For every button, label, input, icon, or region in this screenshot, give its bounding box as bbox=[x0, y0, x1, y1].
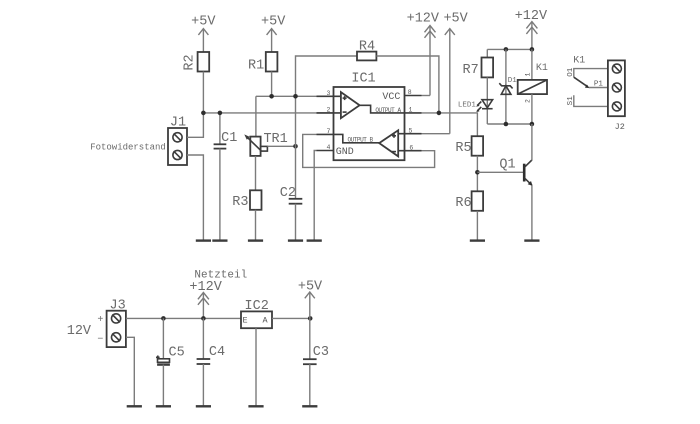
relay coil K1 bbox=[518, 63, 548, 103]
junction node (C4 / +12V riser) bbox=[201, 316, 206, 321]
pin stub 8 bbox=[405, 95, 422, 97]
resistor R2 bbox=[182, 52, 209, 72]
connector J2 bbox=[608, 60, 625, 132]
regulator IC2 bbox=[241, 299, 272, 328]
wire J3 minus to ground bbox=[126, 337, 134, 406]
ground (C2) bbox=[288, 239, 303, 241]
relay contact arm to P1 bbox=[574, 77, 608, 88]
svg-text:A: A bbox=[263, 315, 269, 325]
+5V supply symbol (above R2) bbox=[191, 14, 216, 52]
svg-text:Q1: Q1 bbox=[499, 158, 515, 173]
capacitor C1 bbox=[214, 113, 238, 240]
wire R1 bottom to pin3 net bbox=[271, 72, 273, 97]
svg-text:+5V: +5V bbox=[443, 11, 468, 26]
relay contact S1 terminal bbox=[567, 95, 608, 106]
svg-text:+5V: +5V bbox=[261, 14, 286, 29]
pin stub 6 bbox=[398, 150, 421, 152]
junction node (R2/J1) bbox=[201, 111, 206, 116]
svg-text:C4: C4 bbox=[209, 345, 225, 360]
connector J1 bbox=[168, 116, 187, 166]
junction node (D1 bottom) bbox=[504, 122, 509, 127]
svg-text:4: 4 bbox=[327, 144, 331, 151]
svg-text:E: E bbox=[242, 315, 247, 325]
svg-text:IC1: IC1 bbox=[351, 72, 375, 87]
resistor R3 bbox=[232, 190, 261, 210]
svg-text:GND: GND bbox=[336, 147, 354, 158]
wire IC2 output to +5V node bbox=[272, 317, 310, 319]
svg-text:TR1: TR1 bbox=[263, 132, 287, 147]
wire R7 to LED1 bbox=[486, 77, 488, 124]
ground (C1) bbox=[212, 239, 227, 241]
+12V supply symbol (Netzteil) bbox=[189, 280, 222, 319]
+12V supply symbol (above K1 coil) bbox=[515, 9, 548, 50]
+12V supply symbol (above IC1 pin8) bbox=[407, 11, 440, 95]
wire K1 coil bottom bbox=[531, 94, 533, 124]
junction node (pin3 net / R4C2) bbox=[293, 94, 298, 99]
svg-text:1: 1 bbox=[525, 72, 532, 76]
wire IC2 ground pin bbox=[255, 328, 257, 406]
junction node (R5/R6/base) bbox=[475, 170, 480, 175]
wire J3 plus to rail bbox=[126, 317, 241, 319]
IC1A output path to pin 1 bbox=[360, 105, 405, 113]
wire TR1 top bbox=[255, 96, 257, 136]
wire top rail (+12V) bbox=[487, 48, 532, 50]
capacitor C4 bbox=[197, 318, 226, 406]
svg-text:OUTPUT B: OUTPUT B bbox=[347, 137, 373, 144]
svg-text:2: 2 bbox=[327, 107, 331, 114]
junction node (R1 bottom) bbox=[269, 94, 274, 99]
svg-text:5: 5 bbox=[409, 127, 413, 134]
junction node (R4/outputA) bbox=[437, 111, 442, 116]
svg-text:2: 2 bbox=[525, 99, 532, 103]
ground (C3) bbox=[302, 405, 317, 407]
ground (R3) bbox=[248, 239, 263, 241]
wire pin8 to +12V bbox=[422, 95, 431, 97]
pin stub 2 bbox=[317, 112, 341, 114]
svg-text:8: 8 bbox=[408, 89, 412, 96]
ground (J1 pin2) bbox=[196, 239, 211, 241]
svg-text:6: 6 bbox=[409, 144, 413, 151]
junction node (wiper/C2) bbox=[293, 144, 298, 149]
svg-text:7: 7 bbox=[327, 128, 331, 135]
transistor Q1 bbox=[499, 158, 532, 186]
wire rail corner down to R7 bbox=[486, 49, 488, 57]
wire Q1 emitter to ground bbox=[531, 185, 533, 240]
svg-text:LED1: LED1 bbox=[458, 101, 477, 109]
svg-text:R1: R1 bbox=[248, 59, 264, 74]
wire R4 left / C2 vertical bbox=[296, 56, 358, 199]
pin stub 5 bbox=[398, 133, 421, 135]
wire pin4 to ground bbox=[314, 151, 316, 241]
resistor R4 bbox=[357, 40, 376, 61]
wire base bbox=[477, 171, 523, 173]
wire R3 top bbox=[255, 156, 257, 190]
op-amp IC1 box bbox=[334, 72, 405, 161]
pin stub 4 bbox=[317, 150, 334, 152]
electrolytic capacitor C5 bbox=[156, 318, 185, 406]
svg-text:J2: J2 bbox=[615, 122, 625, 132]
svg-text:C3: C3 bbox=[313, 345, 329, 360]
wire net pin2 row bbox=[203, 112, 333, 114]
wire net pin3 row bbox=[256, 95, 334, 97]
ground (IC2) bbox=[248, 405, 263, 407]
resistor R7 bbox=[462, 58, 493, 78]
wire pin7 feedback loop to pin6 bbox=[303, 134, 435, 167]
ground (R6) bbox=[470, 239, 485, 241]
wire R5 bottom to base node bbox=[476, 156, 478, 192]
wire R3 bottom to ground bbox=[255, 210, 257, 240]
+5V supply symbol (above R1) bbox=[261, 14, 286, 52]
junction node (D1 top) bbox=[504, 47, 509, 52]
junction node (K1 top) bbox=[530, 47, 535, 52]
svg-text:R5: R5 bbox=[455, 141, 471, 156]
+5V supply symbol (above pin5 net) bbox=[443, 11, 468, 133]
wire output A net to R5 bbox=[422, 113, 478, 136]
svg-text:R7: R7 bbox=[462, 63, 478, 78]
svg-text:Fotowiderstand: Fotowiderstand bbox=[90, 143, 166, 153]
junction node (C1 top) bbox=[218, 111, 223, 116]
svg-text:−: − bbox=[97, 335, 103, 346]
svg-text:12V: 12V bbox=[67, 324, 92, 339]
svg-text:3: 3 bbox=[327, 90, 331, 97]
wire Q1 collector up bbox=[531, 124, 533, 160]
svg-text:+12V: +12V bbox=[189, 280, 222, 295]
resistor R6 bbox=[455, 191, 483, 211]
junction node (C5 top) bbox=[161, 316, 166, 321]
svg-text:+: + bbox=[97, 315, 103, 326]
svg-text:1: 1 bbox=[409, 107, 413, 114]
svg-text:VCC: VCC bbox=[382, 92, 400, 103]
svg-text:R6: R6 bbox=[455, 196, 471, 211]
resistor R1 bbox=[248, 52, 277, 74]
svg-text:D1: D1 bbox=[508, 77, 518, 85]
ground (J3 minus) bbox=[127, 405, 142, 407]
svg-text:R3: R3 bbox=[232, 195, 248, 210]
trimmer TR1 bbox=[244, 132, 287, 156]
op-amp IC1B triangle bbox=[379, 130, 398, 156]
LED LED1 bbox=[458, 100, 493, 112]
wire D1 top bbox=[505, 49, 507, 124]
ground (IC1 pin4) bbox=[307, 239, 322, 241]
svg-text:K1: K1 bbox=[536, 63, 548, 74]
junction node (+5V / C3) bbox=[308, 316, 313, 321]
+5V supply symbol (Netzteil) bbox=[298, 279, 323, 318]
svg-text:C5: C5 bbox=[168, 346, 184, 361]
wire R6 bottom to ground bbox=[476, 211, 478, 240]
relay contact O1 terminal bbox=[567, 67, 608, 77]
svg-text:+12V: +12V bbox=[407, 11, 440, 26]
resistor R5 bbox=[455, 136, 483, 156]
pin stub 3 bbox=[317, 95, 341, 97]
capacitor C3 bbox=[303, 318, 329, 406]
ground (C4) bbox=[196, 405, 211, 407]
wire bottom rail bbox=[487, 123, 532, 125]
pin stub 1 bbox=[405, 112, 422, 114]
zener diode D1 bbox=[499, 77, 517, 94]
wire R2 bottom to node bbox=[202, 72, 204, 113]
wire pin5 to +5V riser bbox=[422, 133, 450, 135]
ground (Q1 emitter) bbox=[524, 239, 539, 241]
junction node (K1 bottom / Q1 collector) bbox=[530, 122, 535, 127]
wire R4 right down to output A node bbox=[376, 56, 439, 113]
ground (C5) bbox=[156, 405, 171, 407]
connector J3 bbox=[107, 298, 126, 347]
IC1B output path to pin 7 bbox=[334, 134, 380, 142]
svg-text:R2: R2 bbox=[182, 54, 197, 70]
svg-text:+5V: +5V bbox=[191, 14, 216, 29]
pin stub 7 bbox=[317, 133, 334, 135]
capacitor C2 bbox=[280, 186, 303, 240]
svg-text:OUTPUT A: OUTPUT A bbox=[375, 107, 401, 114]
wire TR1 wiper to C2 node bbox=[267, 145, 295, 147]
svg-text:K1: K1 bbox=[573, 55, 585, 66]
op-amp IC1A triangle bbox=[341, 92, 360, 118]
wire J1 pin2 down to ground bbox=[187, 155, 203, 240]
wire J1 pin1 to node bbox=[187, 113, 203, 137]
wire K1 coil top bbox=[531, 49, 533, 80]
